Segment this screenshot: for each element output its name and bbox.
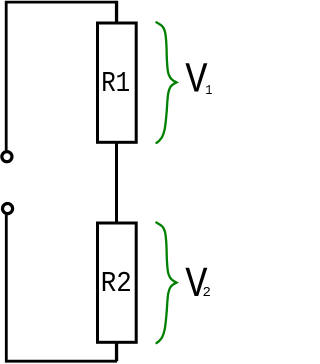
wire bottom-left loop (terminal down, across bottom) — [6, 215, 117, 361]
wire R2 bottom lead stub — [115, 342, 118, 361]
svg-text:R1: R1 — [101, 67, 130, 100]
brace for V2 — [156, 223, 176, 344]
resistor R1 — [98, 23, 137, 142]
terminal (open circle, lower) — [3, 204, 13, 214]
svg-text:1: 1 — [205, 83, 212, 99]
brace for V1 — [156, 22, 176, 143]
svg-text:R2: R2 — [101, 267, 132, 300]
wire top-left loop (terminal up, across top, toward R1) — [6, 2, 116, 150]
wire between R1 and R2 — [115, 142, 118, 223]
resistor R2 — [98, 223, 137, 342]
wire R1 top lead stub — [115, 1, 118, 23]
terminal (open circle, upper) — [2, 152, 12, 162]
svg-text:2: 2 — [202, 285, 210, 301]
